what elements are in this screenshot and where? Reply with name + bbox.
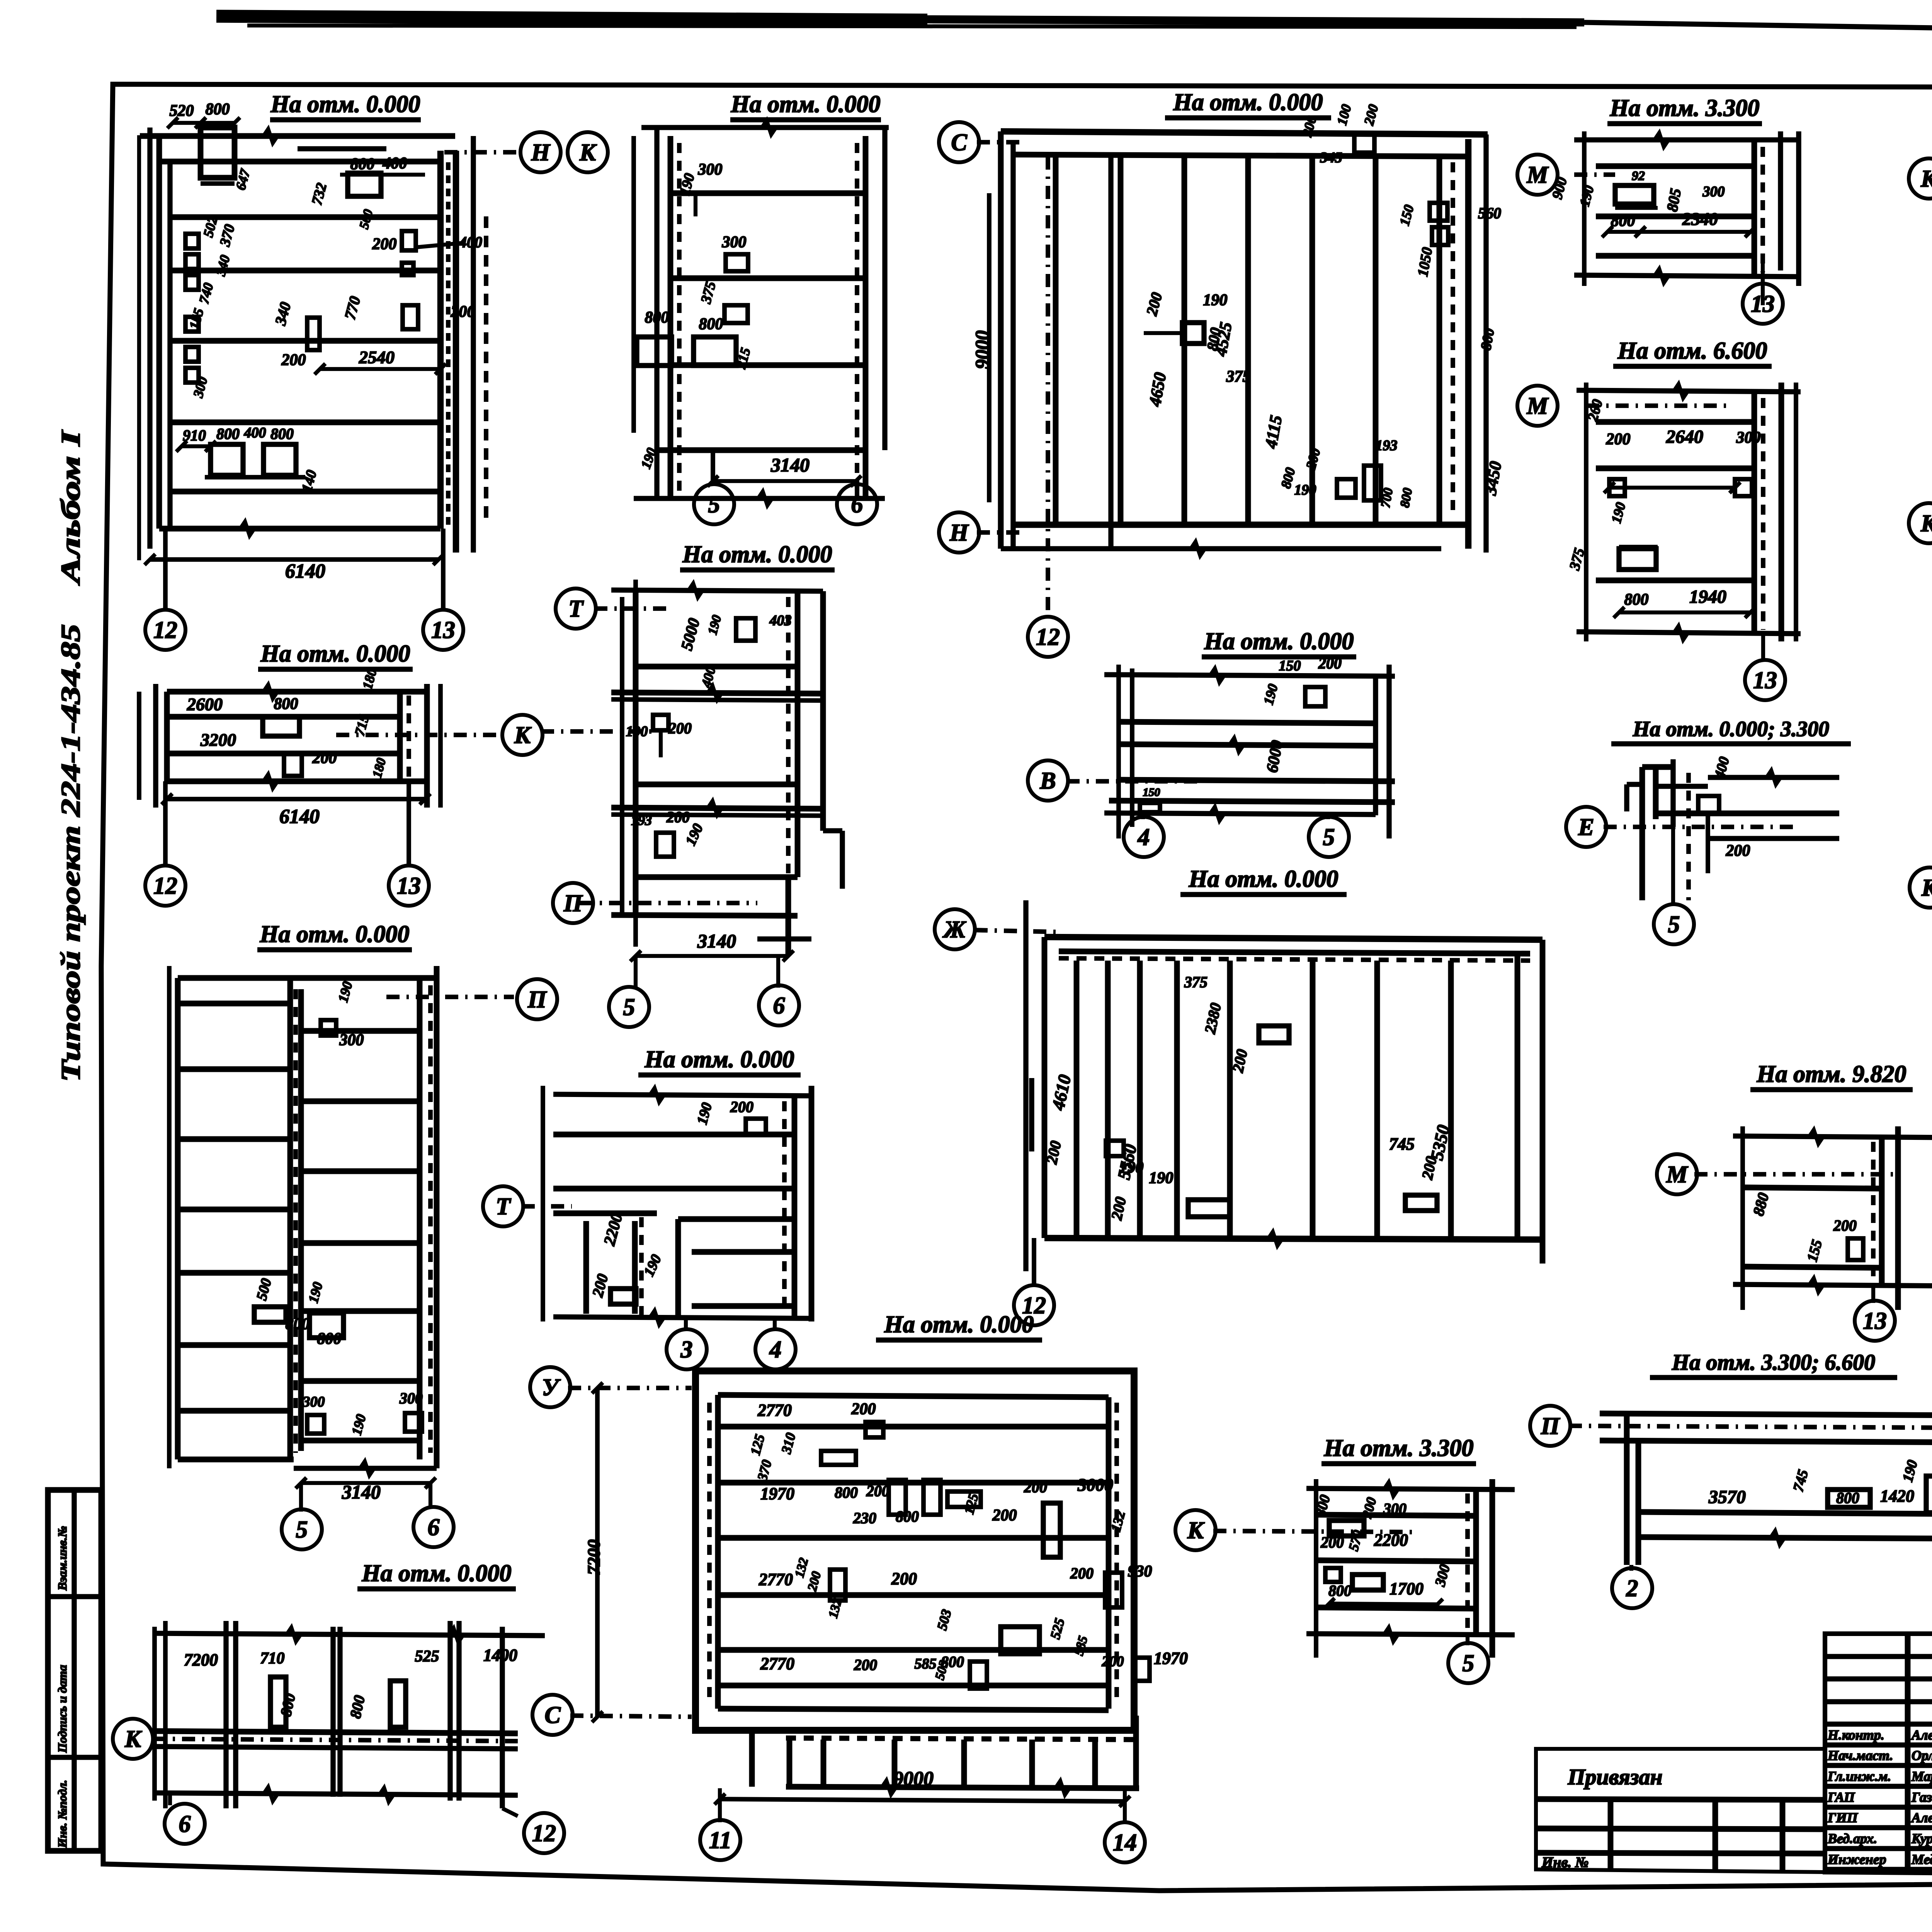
svg-text:На отм. 3.300: На отм. 3.300: [1610, 95, 1760, 121]
svg-text:3000: 3000: [1077, 1475, 1113, 1495]
left margin stamp column: [48, 1490, 101, 1851]
axis circle 6 f22: [165, 1804, 205, 1844]
svg-text:Алексеенко: Алексеенко: [1911, 1727, 1932, 1743]
svg-text:2540: 2540: [359, 347, 395, 367]
axis circle 12 f15: [1014, 1285, 1054, 1325]
svg-text:12: 12: [153, 617, 177, 643]
svg-text:ГИП: ГИП: [1827, 1810, 1858, 1825]
svg-text:На отм. 9.820: На отм. 9.820: [1757, 1061, 1906, 1087]
svg-text:Типовой проект 224-1-434.85: Типовой проект 224-1-434.85: [56, 624, 86, 1082]
svg-text:710: 710: [260, 1650, 285, 1667]
svg-text:На отм. 3.300: На отм. 3.300: [1324, 1435, 1474, 1461]
axis 14 line: [1123, 1788, 1127, 1824]
svg-text:300: 300: [698, 161, 723, 179]
svg-text:3140: 3140: [697, 930, 736, 952]
axis 3 line: [684, 1318, 688, 1331]
svg-text:13: 13: [397, 873, 421, 899]
svg-text:193: 193: [1376, 437, 1398, 454]
svg-text:П: П: [1541, 1413, 1560, 1439]
left margin vertical text: Albom I: [56, 429, 86, 586]
svg-text:3: 3: [680, 1337, 693, 1363]
svg-text:200: 200: [730, 1098, 753, 1116]
axis 6 line: [855, 485, 859, 498]
axis M line f7: [1586, 403, 1731, 408]
scan artifact: top edge line right part: [1584, 22, 1932, 39]
axis 12 line: [163, 529, 168, 611]
svg-text:5: 5: [708, 492, 720, 518]
svg-text:800: 800: [941, 1653, 964, 1670]
svg-text:200: 200: [312, 749, 337, 767]
svg-text:Орлов: Орлов: [1912, 1748, 1932, 1763]
svg-text:К: К: [1921, 875, 1932, 901]
svg-text:1940: 1940: [1689, 587, 1726, 607]
axis circle 14: [1105, 1822, 1145, 1862]
svg-text:1970: 1970: [760, 1484, 794, 1503]
axis circle 13 f19: [1855, 1301, 1895, 1341]
axis circle 12: [145, 610, 185, 650]
svg-text:На отм. 0.000: На отм. 0.000: [1173, 89, 1323, 116]
svg-text:5: 5: [1668, 912, 1680, 938]
svg-text:Ж: Ж: [942, 917, 967, 943]
axis P line f25: [1569, 1426, 1932, 1428]
svg-text:7200: 7200: [584, 1539, 604, 1575]
axis circle 5 f11: [282, 1509, 322, 1549]
svg-text:2600: 2600: [187, 694, 223, 714]
axis P line: [386, 995, 514, 999]
svg-text:13: 13: [1863, 1308, 1887, 1334]
svg-text:800: 800: [699, 315, 723, 333]
title block outer box: [1825, 1634, 1932, 1879]
svg-text:Инженер: Инженер: [1827, 1852, 1886, 1867]
axis 12 lower line: [1108, 156, 1113, 549]
svg-text:3200: 3200: [200, 730, 236, 750]
svg-text:Инв. №: Инв. №: [1541, 1854, 1588, 1871]
svg-text:3570: 3570: [1708, 1487, 1746, 1507]
axis circle 12 below: [1028, 617, 1068, 657]
axis K line f22: [153, 1739, 518, 1741]
svg-text:Марелец: Марелец: [1911, 1769, 1932, 1784]
svg-text:3140: 3140: [342, 1481, 381, 1503]
svg-text:6: 6: [851, 492, 863, 518]
privyazan annex box: [1536, 1749, 1825, 1872]
svg-text:К: К: [1920, 166, 1932, 192]
svg-text:13: 13: [431, 617, 455, 643]
axis K line f12: [541, 729, 657, 734]
svg-text:Т: Т: [568, 596, 584, 622]
axis 6 line f22: [168, 1795, 172, 1805]
axis 4 line f14: [1141, 815, 1145, 819]
svg-text:300: 300: [1702, 184, 1725, 200]
svg-text:На отм. 0.000: На отм. 0.000: [682, 541, 832, 568]
axis circle V: [1028, 760, 1068, 801]
svg-text:12: 12: [532, 1820, 556, 1847]
svg-text:Н: Н: [531, 139, 551, 166]
svg-text:С: С: [951, 129, 967, 156]
svg-text:200: 200: [1318, 655, 1342, 672]
axis circle 2 f25: [1612, 1568, 1652, 1608]
axis circle T f13: [483, 1186, 523, 1226]
svg-text:745: 745: [1389, 1134, 1415, 1153]
svg-text:Альбом I: Альбом I: [56, 429, 86, 586]
axis circle 5 f12: [609, 987, 649, 1027]
svg-text:Инв. №подл.: Инв. №подл.: [55, 1780, 69, 1848]
svg-text:К: К: [124, 1726, 142, 1752]
svg-text:На отм. 0.000: На отм. 0.000: [1189, 866, 1338, 892]
axis circle 11: [700, 1820, 740, 1860]
svg-text:1420: 1420: [1880, 1486, 1914, 1505]
axis 13 line f10: [406, 781, 411, 867]
svg-text:800: 800: [317, 1330, 342, 1348]
axis S line: [570, 1716, 692, 1717]
svg-text:6: 6: [773, 993, 785, 1019]
svg-text:Курченко: Курченко: [1911, 1831, 1932, 1846]
svg-text:200: 200: [668, 719, 692, 737]
svg-text:6: 6: [428, 1514, 440, 1541]
axis circle S: [939, 122, 979, 162]
svg-text:5: 5: [296, 1517, 308, 1543]
axis line N: [444, 150, 520, 155]
svg-text:Гл.инж.м.: Гл.инж.м.: [1827, 1769, 1891, 1784]
svg-text:5: 5: [1323, 824, 1335, 850]
svg-text:800: 800: [1611, 212, 1635, 230]
axis 2 line f25: [1629, 1565, 1633, 1571]
svg-text:375: 375: [1226, 368, 1251, 386]
axis circle K f22: [113, 1719, 153, 1759]
axis Zh line: [975, 930, 1059, 932]
left margin vertical text: Tipovoy proekt 224-1-434.85: [56, 624, 86, 1082]
axis circle K: [1909, 158, 1932, 199]
axis circle M f7: [1517, 386, 1558, 426]
svg-text:5: 5: [623, 994, 635, 1020]
svg-text:190: 190: [1119, 1159, 1144, 1177]
svg-text:200: 200: [1606, 430, 1631, 448]
axis 13 line: [1761, 277, 1765, 284]
axis V line: [1066, 779, 1198, 784]
axis circle M f19: [1657, 1154, 1697, 1194]
svg-text:800: 800: [206, 100, 230, 118]
svg-text:300: 300: [722, 233, 747, 251]
axis circle 13 f7: [1745, 660, 1785, 700]
axis 12 line f15: [1032, 1238, 1036, 1287]
svg-text:800: 800: [350, 155, 375, 173]
svg-text:На отм. 0.000: На отм. 0.000: [260, 921, 410, 947]
axis 11 line: [718, 1788, 722, 1822]
axis circle N lower: [939, 512, 979, 553]
svg-text:200: 200: [451, 303, 475, 321]
svg-text:В: В: [1039, 768, 1056, 794]
svg-text:800: 800: [1624, 591, 1649, 609]
svg-text:1970: 1970: [1154, 1649, 1188, 1668]
svg-text:1700: 1700: [1389, 1579, 1423, 1598]
svg-text:11: 11: [709, 1827, 732, 1854]
svg-text:6140: 6140: [279, 806, 320, 828]
svg-text:6: 6: [179, 1811, 191, 1837]
svg-text:3140: 3140: [770, 454, 810, 476]
svg-text:На отм. 3.300; 6.600: На отм. 3.300; 6.600: [1672, 1350, 1875, 1375]
axis circle T: [556, 588, 596, 629]
svg-text:800: 800: [896, 1508, 919, 1525]
svg-text:Е: Е: [1578, 814, 1594, 840]
axis 12 line f22: [502, 1808, 518, 1816]
svg-text:7200: 7200: [184, 1650, 218, 1669]
svg-text:2640: 2640: [1666, 427, 1703, 447]
axis 6 line f12: [776, 956, 780, 988]
axis circle 5 f24: [1448, 1643, 1488, 1683]
axis circle M: [1517, 155, 1558, 195]
axis K line f10: [336, 733, 502, 737]
svg-text:На отм. 0.000: На отм. 0.000: [270, 91, 420, 117]
svg-text:На отм. 6.600: На отм. 6.600: [1617, 338, 1767, 364]
svg-text:Алексеенко: Алексеенко: [1911, 1810, 1932, 1825]
svg-text:2770: 2770: [757, 1401, 792, 1420]
svg-text:345: 345: [1320, 150, 1342, 166]
axis 5 line f14: [1326, 815, 1330, 819]
axis circle 5 f14: [1309, 817, 1349, 857]
svg-text:150: 150: [1279, 658, 1301, 674]
axis circle Zh: [935, 909, 975, 949]
axis circle 12 f10: [145, 866, 185, 906]
svg-text:300: 300: [303, 1394, 325, 1410]
svg-text:800: 800: [216, 425, 240, 442]
svg-text:13: 13: [1751, 291, 1775, 317]
axis 12 line f10: [163, 781, 168, 867]
svg-text:6140: 6140: [285, 560, 325, 582]
axis circle 13 f10: [389, 866, 429, 906]
svg-text:К: К: [1920, 510, 1932, 537]
axis circle S bottom: [532, 1695, 573, 1735]
axis M line f19: [1694, 1172, 1893, 1177]
axis P line f12: [580, 901, 757, 905]
axis circle 4 f14: [1124, 817, 1164, 857]
axis E line: [1604, 825, 1793, 829]
svg-text:12: 12: [1036, 624, 1060, 650]
svg-text:4: 4: [769, 1337, 782, 1363]
svg-text:300: 300: [1383, 1500, 1406, 1517]
svg-text:12: 12: [153, 873, 177, 899]
svg-text:2770: 2770: [759, 1570, 793, 1589]
axis U line: [568, 1386, 692, 1390]
axis 5 line f11: [299, 1483, 303, 1512]
axis circle P: [517, 979, 557, 1019]
svg-text:На отм. 0.000; 3.300: На отм. 0.000; 3.300: [1633, 717, 1829, 741]
svg-text:400: 400: [383, 155, 407, 172]
svg-text:800: 800: [274, 695, 298, 713]
svg-text:560: 560: [1478, 204, 1501, 222]
svg-text:ГАП: ГАП: [1827, 1789, 1855, 1805]
svg-text:200: 200: [1102, 1653, 1124, 1670]
svg-text:На отм. 0.000: На отм. 0.000: [362, 1560, 512, 1587]
axis K line f24: [1213, 1531, 1414, 1532]
svg-text:П: П: [563, 890, 583, 917]
axis circle N: [520, 132, 561, 172]
axis circle K (top): [568, 132, 608, 172]
svg-text:К: К: [579, 139, 597, 166]
svg-text:5: 5: [1463, 1650, 1475, 1677]
svg-text:14: 14: [1113, 1830, 1137, 1856]
svg-text:1400: 1400: [483, 1646, 517, 1665]
svg-text:375: 375: [1184, 973, 1207, 991]
svg-text:200: 200: [281, 351, 306, 369]
svg-text:193: 193: [631, 813, 652, 828]
svg-text:200: 200: [372, 235, 397, 253]
svg-text:403: 403: [769, 612, 792, 629]
svg-text:200: 200: [1024, 1478, 1047, 1496]
svg-text:Нач.маст.: Нач.маст.: [1827, 1748, 1893, 1763]
svg-text:9000: 9000: [971, 330, 993, 369]
axis 5 line f16: [1671, 827, 1675, 906]
axis circle 3: [667, 1329, 707, 1369]
svg-text:190: 190: [1294, 482, 1316, 498]
axis 13 line f19: [1871, 1286, 1875, 1303]
axis 13 line f7: [1761, 634, 1765, 662]
svg-text:Н: Н: [949, 520, 969, 546]
svg-text:Взам.инв.№: Взам.инв.№: [55, 1526, 69, 1591]
svg-text:200: 200: [992, 1507, 1017, 1524]
svg-text:190: 190: [1149, 1169, 1173, 1187]
axis circle 6 f11: [413, 1507, 454, 1547]
svg-text:М: М: [1666, 1162, 1688, 1188]
svg-text:2: 2: [1626, 1575, 1638, 1602]
svg-text:525: 525: [415, 1648, 439, 1665]
svg-text:На отм. 0.000: На отм. 0.000: [645, 1046, 794, 1073]
axis circle 4: [755, 1329, 796, 1369]
svg-text:150: 150: [1143, 786, 1160, 799]
axis circle 6 f12: [759, 985, 799, 1026]
svg-text:Газеров: Газеров: [1911, 1789, 1932, 1805]
axis circle P f25: [1530, 1406, 1570, 1446]
axis circle K f17: [1910, 867, 1932, 908]
axis 5 line f24: [1466, 1635, 1469, 1645]
svg-text:800: 800: [270, 425, 294, 442]
svg-text:400: 400: [244, 425, 266, 441]
svg-text:Н.контр.: Н.контр.: [1827, 1727, 1884, 1743]
axis circle 6: [837, 484, 877, 524]
svg-text:У: У: [542, 1374, 561, 1401]
axis circle U: [530, 1367, 570, 1407]
axis circle K f24: [1175, 1510, 1216, 1550]
svg-text:230: 230: [853, 1509, 876, 1527]
axis circle K f8: [1909, 503, 1932, 543]
svg-text:Медведская: Медведская: [1911, 1852, 1932, 1867]
svg-text:2340: 2340: [1682, 209, 1718, 229]
svg-text:С: С: [544, 1702, 561, 1728]
svg-text:930: 930: [1128, 1563, 1152, 1580]
svg-text:На отм. 0.000: На отм. 0.000: [884, 1311, 1034, 1338]
axis circle 13: [1743, 284, 1783, 324]
svg-text:Привязан: Привязан: [1567, 1764, 1662, 1789]
svg-text:На отм. 0.000: На отм. 0.000: [731, 91, 881, 117]
svg-text:Подпись и дата: Подпись и дата: [55, 1665, 69, 1753]
svg-text:9000: 9000: [893, 1768, 934, 1790]
axis 13 line: [441, 529, 446, 611]
svg-text:4: 4: [1138, 824, 1150, 850]
svg-text:На отм. 0.000: На отм. 0.000: [260, 641, 410, 667]
svg-text:200: 200: [851, 1400, 876, 1418]
svg-text:200: 200: [1320, 1534, 1344, 1551]
svg-text:М: М: [1526, 393, 1549, 419]
svg-text:190: 190: [626, 723, 648, 740]
svg-text:200: 200: [666, 808, 690, 826]
svg-text:800: 800: [1328, 1582, 1352, 1599]
svg-text:200: 200: [1070, 1565, 1094, 1582]
svg-text:П: П: [527, 986, 547, 1013]
axis 5 line: [711, 450, 715, 485]
svg-text:К: К: [1187, 1517, 1205, 1544]
svg-text:На отм. 0.000: На отм. 0.000: [1204, 628, 1354, 655]
svg-text:190: 190: [1203, 291, 1228, 309]
axis T line: [594, 606, 672, 611]
svg-text:800: 800: [1836, 1489, 1859, 1507]
svg-text:800: 800: [645, 309, 669, 327]
svg-text:800: 800: [286, 1315, 310, 1333]
svg-text:200: 200: [891, 1569, 917, 1588]
scan artifact: top edge smear line: [216, 16, 927, 20]
svg-text:2770: 2770: [760, 1654, 794, 1673]
axis 5 line f12: [634, 956, 638, 988]
svg-text:520: 520: [170, 102, 194, 120]
svg-text:585: 585: [915, 1656, 937, 1672]
svg-text:300: 300: [339, 1031, 364, 1049]
axis 4 line: [773, 1318, 777, 1331]
svg-text:М: М: [1526, 162, 1549, 188]
svg-text:200: 200: [854, 1656, 877, 1673]
svg-text:Т: Т: [496, 1194, 511, 1220]
svg-text:К: К: [514, 722, 532, 748]
axis circle 5: [694, 484, 734, 524]
svg-text:300: 300: [399, 1389, 423, 1407]
svg-text:2200: 2200: [1374, 1531, 1408, 1549]
svg-text:300: 300: [1736, 429, 1761, 447]
svg-text:13: 13: [1753, 667, 1777, 694]
svg-text:200: 200: [1726, 842, 1750, 860]
axis circle E: [1566, 807, 1606, 847]
axis T line f13: [522, 1204, 572, 1209]
svg-text:Вед.арх.: Вед.арх.: [1827, 1831, 1877, 1846]
axis circle P f12: [553, 883, 593, 923]
svg-text:200: 200: [866, 1482, 889, 1500]
axis circle 13: [423, 610, 463, 650]
svg-text:92: 92: [1632, 169, 1645, 183]
svg-text:200: 200: [1833, 1217, 1857, 1234]
axis circle 5 f16: [1654, 904, 1694, 944]
svg-text:800: 800: [835, 1484, 858, 1501]
axis circle K f10: [502, 715, 543, 755]
axis 6 line f11: [429, 1483, 432, 1509]
